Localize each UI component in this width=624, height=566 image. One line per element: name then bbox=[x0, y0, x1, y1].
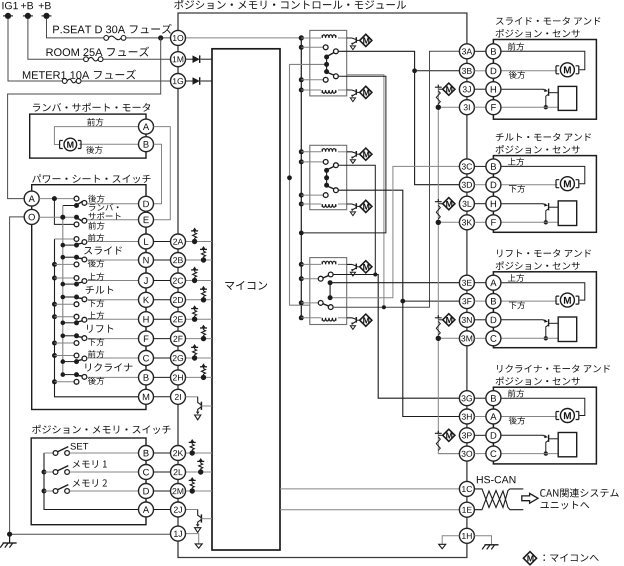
wire: K2 coil1 out bbox=[338, 151, 347, 153]
junction: ground junction bbox=[7, 532, 12, 537]
terminal E (switch E) bbox=[139, 212, 154, 227]
wire: contact bus bbox=[55, 239, 139, 397]
box: potentiometer g3 bbox=[558, 317, 577, 342]
junction: リフト bottom contact tap bbox=[52, 341, 57, 346]
wire: g3 r4 wire bbox=[501, 337, 558, 339]
wire: 3-sensor return g2 bbox=[438, 221, 459, 223]
microcomputer-port diamond K1 U2 bbox=[360, 86, 372, 98]
terminal 3A (module 3A) bbox=[459, 44, 474, 59]
box: potentiometer g2 bbox=[558, 201, 577, 226]
label: lbl リフト bot bbox=[88, 338, 104, 346]
wire: リフト bottom contact feed bbox=[55, 342, 75, 344]
wire: 2A to MCU bbox=[186, 241, 213, 243]
wire: g1 r2 wire bbox=[501, 70, 558, 72]
label: lbl リフト top bbox=[88, 311, 104, 319]
wire: link 3C-B bbox=[474, 165, 486, 167]
junction: chain tap g1 bbox=[436, 105, 441, 110]
terminal 2H (module 2H) bbox=[171, 370, 186, 385]
relay coil K1 coil2 bbox=[322, 90, 336, 93]
wire: 2I link bbox=[154, 396, 171, 398]
label: g4 dir1 bbox=[508, 389, 524, 397]
terminal 2D (module 2D) bbox=[171, 292, 186, 307]
wire: g4 wiper wire bbox=[501, 434, 544, 436]
label: lbl スライド bot bbox=[88, 259, 104, 267]
terminal 1E (module 1E) bbox=[459, 502, 474, 517]
terminal F (sensor F g1) bbox=[486, 100, 501, 115]
fuse P.SEAT D 30A bbox=[104, 36, 126, 41]
wire: K3 coil1 out bbox=[338, 263, 347, 265]
supply arrow 2G pullup supply bbox=[191, 344, 198, 347]
box: memory switch box bbox=[31, 438, 146, 525]
wire: g4 r4 wire bbox=[501, 453, 558, 455]
microcomputer-port diamond K2 U1 bbox=[360, 148, 372, 160]
microcomputer-port diamond legend diamond bbox=[523, 552, 536, 565]
switch contact (リクライナ out up) bbox=[82, 356, 87, 361]
junction: 2L pullup tap bbox=[198, 469, 203, 474]
wire: diode to MCU (1G) bbox=[201, 80, 212, 82]
junction: K2 pole B bbox=[324, 183, 329, 188]
terminal 1M (module 1M) bbox=[171, 52, 186, 67]
terminal 2E (module 2E) bbox=[171, 312, 186, 327]
terminal 3K (module 3K) bbox=[459, 215, 474, 230]
wire: K2 coil1 feed bbox=[301, 151, 321, 153]
label: g3 dir2 bbox=[509, 301, 525, 309]
terminal 3L (module 3L) bbox=[459, 196, 474, 211]
diode D1 (1M) bbox=[193, 55, 200, 63]
terminal B (sensor B g2) bbox=[486, 159, 501, 174]
label: METER1 fuse jp bbox=[94, 69, 136, 79]
lever lumbar up bbox=[77, 201, 83, 205]
switch contact (lumbar rear) bbox=[74, 196, 79, 201]
switch contact (mem sw 2 b) bbox=[65, 489, 70, 494]
resistor pullup 32 sensor bbox=[436, 205, 440, 219]
microcomputer-port diamond U3 sensor g1 bbox=[443, 83, 455, 95]
box: relay K1 bbox=[310, 30, 347, 96]
junction: スライド pole2 tap bbox=[61, 255, 66, 260]
terminal D (sensor D g1) bbox=[486, 63, 501, 78]
wire: +B relay bus bbox=[300, 38, 302, 318]
motor lumbar bbox=[60, 138, 81, 151]
terminal 3G (module 3G) bbox=[459, 391, 474, 406]
label: memory1 bbox=[73, 460, 107, 468]
wire: link 3I-F bbox=[474, 106, 486, 108]
junction: チルト top contact tap bbox=[52, 276, 57, 281]
junction: リフト pole1 tap bbox=[61, 321, 66, 326]
wire: link 3E-A bbox=[474, 282, 486, 284]
terminal 3C (module 3C) bbox=[459, 159, 474, 174]
junction: リクライナ bottom contact tap bbox=[52, 379, 57, 384]
junction: K1 c1 tap bbox=[299, 45, 304, 50]
position sensor wiper g3 bbox=[543, 319, 558, 338]
terminal H (sensor H g1) bbox=[486, 82, 501, 97]
switch contact (K3 thr up) bbox=[328, 272, 333, 277]
wire: K2 down out bbox=[338, 190, 459, 416]
terminal A (switch A) bbox=[24, 191, 39, 206]
terminal 1O (module 1O) bbox=[171, 30, 186, 45]
box: sensor box 1 bbox=[493, 40, 596, 120]
microcomputer-port diamond K1 U1 bbox=[360, 34, 372, 46]
wire: link 3F-B bbox=[474, 300, 486, 302]
junction: 2G pullup tap bbox=[192, 355, 197, 360]
wire: mem sw 1 left bbox=[44, 471, 53, 473]
wire: 2J link bbox=[154, 509, 171, 511]
junction: 2A pullup tap bbox=[192, 239, 197, 244]
wire: link 3O-C bbox=[474, 453, 486, 455]
switch contact (K3 cL1) bbox=[318, 276, 323, 281]
supply arrow 2H pullup supply bbox=[200, 363, 207, 366]
junction: 2K pullup tap bbox=[190, 450, 195, 455]
wire: diamond stub g2 bbox=[438, 203, 443, 205]
switch contact (K3 thr down) bbox=[328, 305, 333, 310]
switch contact (K1 c1) bbox=[323, 45, 328, 50]
label: lbl チルト bbox=[86, 286, 114, 294]
junction: K2 c2 tap bbox=[299, 193, 304, 198]
terminal 3H (module 3H) bbox=[459, 409, 474, 424]
ground stem bbox=[9, 534, 11, 543]
junction: 2M pullup tap bbox=[190, 488, 195, 493]
label: g1 dir1 bbox=[508, 43, 524, 51]
wire: 2H link bbox=[154, 376, 171, 378]
junction: 2B pullup tap bbox=[201, 257, 206, 262]
supply arrow 2M pullup supply bbox=[189, 477, 196, 480]
wire: K1 pole link bbox=[326, 57, 328, 72]
wire: 1H right gnd bbox=[474, 536, 491, 545]
wire: link 3D-D bbox=[474, 184, 486, 186]
wire: 3-sensor return g3 bbox=[438, 337, 459, 339]
wire: K3 coil2 out bbox=[338, 317, 347, 319]
lever memory switch 0 bbox=[58, 447, 69, 452]
label: g4 dir2 bbox=[509, 417, 525, 425]
label: lbl lumbar2 bbox=[88, 212, 120, 220]
label: lbl lumbar1 bbox=[89, 204, 118, 211]
wire: K3 thr-up out bbox=[333, 275, 460, 399]
switch contact (リフト top) bbox=[74, 314, 79, 319]
wire: K3 cL1 feed bbox=[301, 278, 318, 280]
microcomputer-port diamond K3 U1 bbox=[360, 261, 372, 273]
wire: 2D to MCU bbox=[186, 299, 213, 301]
wire: リフト top contact feed bbox=[55, 316, 75, 318]
lever チルト up bbox=[77, 282, 83, 283]
junction: スライド pole1 tap bbox=[61, 243, 66, 248]
microcomputer-port diamond U3 sensor g4 bbox=[443, 429, 455, 441]
wire: link 3A-B bbox=[474, 50, 486, 52]
fuse ROOM 25A bbox=[84, 57, 103, 62]
wire: 2F to MCU bbox=[186, 338, 213, 340]
wire: スライド down out bbox=[87, 259, 139, 261]
lever リクライナ down bbox=[77, 375, 82, 378]
wire: lumbar A wire bbox=[54, 127, 138, 145]
wire: 2B to MCU bbox=[186, 259, 213, 261]
resistor pullup 34 sensor bbox=[436, 437, 440, 451]
switch contact (K3 cL2) bbox=[318, 301, 323, 306]
label: memory2 bbox=[73, 479, 107, 487]
switch contact (K1 out up) bbox=[334, 49, 339, 54]
wire: link 3J-H bbox=[474, 88, 486, 90]
label: lbl チルト top bbox=[88, 273, 104, 281]
twisted pair CAN-H bbox=[474, 489, 523, 508]
wire: 1O feed bbox=[186, 37, 302, 39]
motor g2 bbox=[556, 177, 579, 191]
switch contact (リフト out down) bbox=[82, 336, 87, 341]
box: potentiometer g1 bbox=[558, 86, 577, 110]
terminal L (switch L) bbox=[139, 234, 154, 249]
resistor pullup 31 sensor bbox=[436, 91, 440, 104]
wire: K1 down out gray bbox=[347, 75, 384, 307]
wire: 2J to transistor bbox=[186, 509, 198, 511]
terminal A (sensor A g3) bbox=[486, 275, 501, 290]
junction: g4 wiper tap bbox=[544, 451, 548, 455]
relay coil K2 coil2 bbox=[322, 204, 336, 207]
terminal F (switch F) bbox=[139, 331, 154, 346]
supply tick group 3 bbox=[435, 315, 442, 318]
wire: リクライナ up out bbox=[87, 357, 139, 359]
junction: 2F pullup tap bbox=[201, 336, 206, 341]
switch contact (K1 c2) bbox=[323, 77, 328, 82]
chassis ground 1H chassis bbox=[482, 545, 498, 550]
transistor K3 Q2 bbox=[347, 317, 360, 329]
wire: K1 up out to V414 bbox=[338, 51, 459, 184]
terminal 1C (module 1C) bbox=[459, 481, 474, 496]
resistor 2B pullup bbox=[202, 251, 206, 256]
wire: 2M link bbox=[154, 490, 171, 492]
terminal D (memory D) bbox=[139, 484, 154, 499]
terminal M (switch M) bbox=[139, 389, 154, 404]
twisted pair CAN-L bbox=[474, 491, 523, 510]
terminal D (sensor D g3) bbox=[486, 312, 501, 327]
label: P.SEAT fuse jp bbox=[130, 24, 172, 34]
switch contact (lumbar out D) bbox=[82, 201, 87, 206]
terminal 3M (module 3M) bbox=[459, 331, 474, 346]
switch contact (mem sw 1 b) bbox=[65, 470, 70, 475]
junction: リフト pole2 tap bbox=[61, 334, 66, 339]
switch contact (K1 out down) bbox=[334, 74, 339, 79]
wire: K1 coil1 out bbox=[338, 37, 347, 39]
label: lbl スライド top bbox=[88, 234, 104, 242]
switch contact (lumbar front) bbox=[74, 222, 79, 227]
wire: K3 pole2 out bbox=[332, 297, 346, 299]
lever K3 up bbox=[323, 275, 329, 278]
switch contact (リクライナ out down) bbox=[82, 375, 87, 380]
wire: 2M to MCU bbox=[186, 490, 213, 492]
wire: 2A link bbox=[154, 241, 171, 243]
wire: 3F feed bbox=[403, 300, 460, 302]
junction: スライド pole2 bbox=[74, 255, 79, 260]
lever K2 down bbox=[328, 186, 335, 189]
wire: リクライナ pole1 link bbox=[63, 361, 77, 363]
wire: K3 pole1 out (3E) bbox=[332, 282, 459, 284]
junction: A branch bbox=[52, 196, 57, 201]
supply arrow 2C pullup supply bbox=[191, 267, 198, 270]
switch contact (K2 c1) bbox=[323, 160, 328, 165]
wire: g4 r1 wire bbox=[501, 398, 585, 415]
junction: K1 coil2 tap bbox=[299, 88, 304, 93]
wire: スライド top contact feed bbox=[55, 238, 75, 240]
terminal 2A (module 2A) bbox=[171, 234, 186, 249]
junction: K1 c2 tap bbox=[299, 77, 304, 82]
wire: P.SEAT to switch A bbox=[8, 38, 161, 199]
wire: g2 r1 wire bbox=[501, 166, 585, 183]
wire: 3-sensor return g1 bbox=[438, 106, 459, 108]
junction: mem tap 2 bbox=[42, 489, 47, 494]
switch contact (リフト bottom) bbox=[74, 341, 79, 346]
label: g2 dir1 bbox=[508, 158, 524, 166]
terminal 2F (module 2F) bbox=[171, 331, 186, 346]
label: g3 dir1 bbox=[508, 274, 524, 282]
wire: K2 up out bbox=[338, 165, 375, 274]
terminal 3P (module 3P) bbox=[459, 428, 474, 443]
battery feed +B b bbox=[42, 13, 52, 19]
wire: 1E to MCU bbox=[280, 509, 459, 511]
junction: 374 join bbox=[373, 273, 377, 277]
label: sensor title 3b bbox=[496, 261, 580, 270]
terminal 1G (module 1G) bbox=[171, 74, 186, 89]
junction: lumbar pole1 bbox=[74, 203, 79, 208]
junction: g2 wiper tap bbox=[544, 220, 548, 224]
wire: g2 wiper wire bbox=[501, 203, 544, 205]
switch contact (mem sw 0 a) bbox=[53, 451, 58, 456]
transistor K1 Q2 bbox=[347, 89, 360, 101]
lever K2 up bbox=[328, 166, 335, 169]
position sensor wiper g4 bbox=[543, 435, 558, 454]
lever K3 down bbox=[323, 304, 329, 307]
wire: 3A feed bbox=[333, 51, 459, 307]
relay coil K1 coil1 bbox=[322, 35, 336, 38]
transistor Q 2I bbox=[198, 397, 202, 412]
junction: chain tap g2 bbox=[436, 220, 441, 225]
junction: リクライナ pole1 bbox=[74, 359, 79, 364]
box: relay K3 bbox=[310, 258, 347, 325]
wire: 1H left gnd bbox=[442, 536, 459, 544]
wire: diamond stub g4 bbox=[438, 434, 443, 436]
position sensor wiper g2 bbox=[543, 203, 558, 222]
wire: リフト up out bbox=[87, 318, 139, 320]
wire: pole common bus bbox=[62, 206, 64, 375]
box: relay K2 bbox=[310, 145, 347, 209]
junction: common bus relay2 tap bbox=[287, 175, 292, 180]
resistor 2G pullup bbox=[193, 349, 197, 354]
wire: diamond stub g1 bbox=[438, 88, 443, 90]
junction: K3 pole2 bbox=[328, 295, 333, 300]
label: HS-CAN bbox=[477, 476, 516, 483]
label: CAN text2 bbox=[541, 501, 590, 509]
wire: g1 wiper wire bbox=[501, 88, 544, 90]
wire: チルト up out bbox=[87, 280, 139, 282]
wire: K1 c2 feed bbox=[301, 79, 323, 81]
junction: リフト pole1 bbox=[74, 320, 79, 325]
transistor K2 Q2 bbox=[347, 203, 360, 215]
wire: V385 filler bbox=[301, 76, 386, 233]
wire: 1J to ground arrow bbox=[186, 534, 199, 544]
terminal D (switch D) bbox=[139, 196, 154, 211]
label: +B a bbox=[21, 2, 33, 9]
junction: 307 join bbox=[382, 305, 386, 309]
terminal D (sensor D g4) bbox=[486, 428, 501, 443]
junction: chain tap g3 bbox=[436, 336, 441, 341]
wire: チルト bottom contact feed bbox=[55, 303, 75, 305]
wire: 2D link bbox=[154, 299, 171, 301]
terminal C (memory C) bbox=[139, 465, 154, 480]
wire: mem sw 2 left bbox=[44, 490, 53, 492]
junction: bus 232 tap bbox=[299, 231, 304, 236]
microcomputer-port diamond U3 sensor g3 bbox=[443, 314, 455, 326]
position sensor wiper g1 bbox=[543, 89, 558, 108]
label: g2 dir2 bbox=[509, 185, 525, 193]
wire: K2 c1 feed bbox=[301, 161, 323, 163]
terminal 2J (module 2J) bbox=[171, 502, 186, 517]
wire: 2I to transistor bbox=[186, 396, 198, 398]
lever K1 down bbox=[328, 73, 335, 76]
label: sensor title 1b bbox=[496, 29, 580, 38]
junction: リクライナ top contact tap bbox=[52, 353, 57, 358]
wire: 3B feed bbox=[415, 70, 460, 72]
motor g1 bbox=[556, 63, 579, 77]
label: sensor title 3a bbox=[497, 249, 591, 257]
label: P.SEAT fuse pre bbox=[53, 26, 125, 34]
resistor 2A pullup bbox=[193, 233, 197, 238]
wire: K3 pole link bbox=[329, 283, 331, 298]
terminal K (switch K) bbox=[139, 292, 154, 307]
junction: スライド pole1 bbox=[74, 243, 79, 248]
wire: リクライナ pole2 link bbox=[63, 374, 77, 376]
label: sensor title 1a bbox=[496, 17, 600, 25]
switch contact (チルト bottom) bbox=[74, 302, 79, 307]
switch contact (リクライナ bottom) bbox=[74, 379, 79, 384]
wire: K1 c1 feed bbox=[301, 46, 323, 48]
wire: 2E link bbox=[154, 318, 171, 320]
switch contact (チルト out up) bbox=[82, 279, 87, 284]
label: lbl リクライナ bot bbox=[88, 377, 104, 385]
microcomputer-port diamond K2 U2 bbox=[360, 200, 372, 212]
wire: チルト down out bbox=[87, 299, 139, 301]
wire: diamond stub g3 bbox=[438, 319, 443, 321]
diode D2 (1G) bbox=[193, 77, 200, 85]
junction: チルト bottom contact tap bbox=[52, 302, 57, 307]
wire: K2 c2 feed bbox=[301, 194, 323, 196]
microcomputer-port diamond U3 sensor g2 bbox=[443, 198, 455, 210]
lever スライド up bbox=[77, 243, 83, 244]
wire: A contact feed bbox=[39, 198, 74, 200]
wire: K2 coil2 feed bbox=[301, 203, 321, 205]
wire: 2C to MCU bbox=[186, 280, 213, 282]
junction: K2 pole A bbox=[324, 168, 329, 173]
wire: 2L to MCU bbox=[186, 471, 213, 473]
wire: pole1 to common bbox=[63, 205, 77, 207]
box: sensor box 3 bbox=[493, 272, 596, 348]
terminal 3J (module 3J) bbox=[459, 82, 474, 97]
junction: g3 wiper tap bbox=[544, 336, 548, 340]
terminal 2K (module 2K) bbox=[171, 446, 186, 461]
junction: P.SEAT junction bbox=[158, 35, 163, 40]
wire: g3 r2 wire bbox=[501, 300, 558, 302]
junction: K1 coil1 tap bbox=[299, 36, 304, 41]
wire: K3 coil2 feed bbox=[301, 317, 321, 319]
resistor 2L pullup bbox=[199, 463, 203, 468]
terminal N (switch N) bbox=[139, 253, 154, 268]
junction: K2 c1 tap bbox=[299, 159, 304, 164]
junction: リクライナ pole1 tap bbox=[61, 359, 66, 364]
label: sensor title 2b bbox=[496, 145, 580, 154]
battery feed +B a bbox=[23, 13, 33, 19]
junction: チルト pole2 bbox=[74, 295, 79, 300]
label: lbl リフト bbox=[87, 325, 113, 333]
terminal D (sensor D g2) bbox=[486, 177, 501, 192]
terminal 2L (module 2L) bbox=[171, 465, 186, 480]
ground arrow 1J gnd bbox=[195, 544, 202, 548]
label: lumbar rev bbox=[86, 146, 102, 154]
terminal B (sensor B g4) bbox=[486, 391, 501, 406]
label: CAN text1 bbox=[540, 488, 618, 497]
wire: スライド up out bbox=[87, 241, 139, 243]
